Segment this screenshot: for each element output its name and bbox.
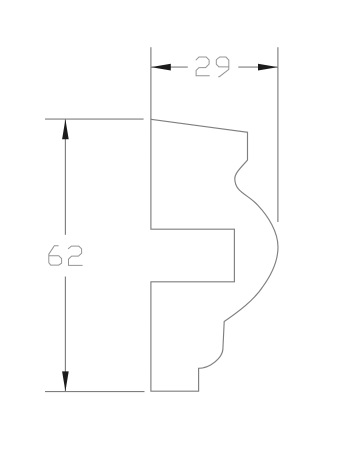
arrow 62 bottom [62, 371, 69, 391]
extension line top-right (29 dim, right) [277, 47, 279, 222]
arrow 29 left [151, 64, 171, 71]
extension line left-top (62 dim, top) [45, 118, 144, 120]
arrow 62 top [62, 119, 69, 139]
dim text 62 : digit 2 [68, 246, 83, 265]
dim text 29 : digit 2 [196, 57, 210, 76]
dimension line 29 left segment [151, 66, 188, 68]
dimension line 29 right segment [238, 66, 278, 68]
arrow 29 right [258, 64, 278, 71]
dimension line 62 lower segment [64, 277, 66, 392]
extension line top-left (29 dim, left) [150, 47, 152, 119]
moulding profile outline [151, 119, 278, 391]
extension line left-bottom (62 dim, bottom) [45, 391, 145, 393]
dim text 62 : digit 6 [49, 246, 62, 265]
dim text 29 : digit 9 [216, 57, 229, 77]
dimension line 62 upper segment [64, 119, 66, 235]
